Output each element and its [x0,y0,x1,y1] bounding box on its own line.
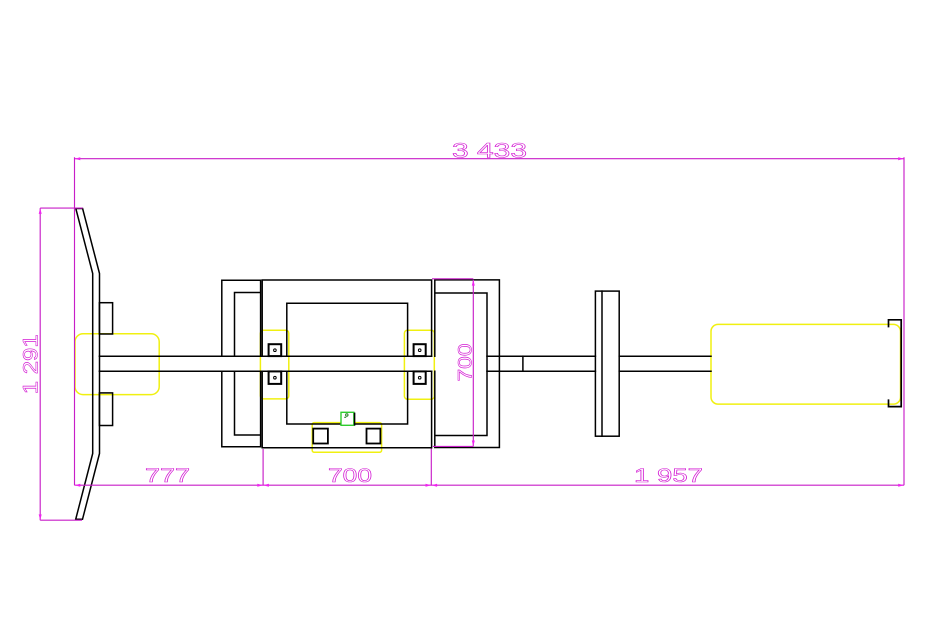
highlight box left hub (yellow) [75,334,159,395]
dim 1291 extension top [40,207,82,209]
dim 1291 line (left vertical) [39,208,41,520]
svg-text:700: 700 [455,343,477,381]
svg-text:777: 777 [145,465,190,487]
blade hub plate upper [99,303,112,334]
extension line right (x=902) [903,157,905,485]
flange disc inner line [601,291,603,436]
shaft segment A (hub to gearbox) [99,356,431,371]
extension line x=263 [262,449,264,485]
selected block marker (green) [341,412,355,425]
gearbox outer housing [262,280,431,448]
svg-text:1 291: 1 291 [20,334,43,394]
arrowheads dim 3433 [75,157,81,160]
arrowheads dim 777 [75,484,81,487]
motor mount bracket (right) [889,320,902,407]
bolt block upper-right [414,344,426,356]
bolt hole upper-right [418,349,421,352]
highlight box gearbox right bolts (yellow) [404,330,434,399]
dimension line 3433 (top) [75,158,905,160]
arrowheads dim 1291 [39,208,42,214]
bolt hole lower-right [418,376,421,379]
bolt block lower-right [414,371,426,384]
dim 700 vertical extension top [432,278,473,280]
bolt block upper-left [269,344,282,356]
arrowheads dim 700 bottom [263,484,269,487]
left support channel [222,280,261,447]
right support channel [435,280,500,448]
svg-text:3 433: 3 433 [452,140,527,163]
shaft segment C (flange disc to motor) [619,356,711,371]
gearbox bottom foot left [313,429,328,444]
extension line left (x=74) [74,157,76,485]
blade (left moldboard, side view) [76,209,100,520]
dim 1291 extension bottom [40,519,82,521]
blade hub plate lower [99,393,112,426]
bottom dimension line (777/700/1957) [75,484,905,486]
bolt hole upper-left [274,349,277,352]
extension line x=431 [430,449,432,486]
gearbox bottom foot right [367,429,381,444]
svg-text:700: 700 [328,465,372,487]
flange disc (edge view) [595,291,619,436]
shaft segment B (right support to flange disc) [487,356,595,371]
bolt hole lower-left [274,376,277,379]
dim 700 vertical extension bottom [433,445,473,447]
shaft coupling tick [522,356,524,371]
bolt block lower-left [269,371,282,384]
arrowheads dim 1957 [431,484,437,487]
arrowheads dim 700 vertical [472,280,475,286]
svg-text:1 957: 1 957 [634,465,703,487]
highlight box gearbox bottom feet (yellow) [312,423,381,453]
gearbox inner box [287,303,408,424]
dim 700 vertical line [472,280,474,447]
highlight box gearbox left bolts (yellow) [260,330,288,399]
highlight box motor (yellow) [711,324,901,404]
